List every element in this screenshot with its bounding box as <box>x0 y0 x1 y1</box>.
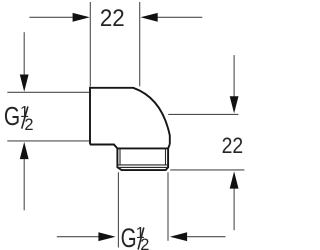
svg-text:2: 2 <box>140 236 149 250</box>
svg-text:G: G <box>4 103 20 131</box>
svg-text:G: G <box>121 223 137 250</box>
svg-text:22: 22 <box>222 133 244 158</box>
svg-text:2: 2 <box>24 116 33 134</box>
svg-text:22: 22 <box>100 5 125 32</box>
